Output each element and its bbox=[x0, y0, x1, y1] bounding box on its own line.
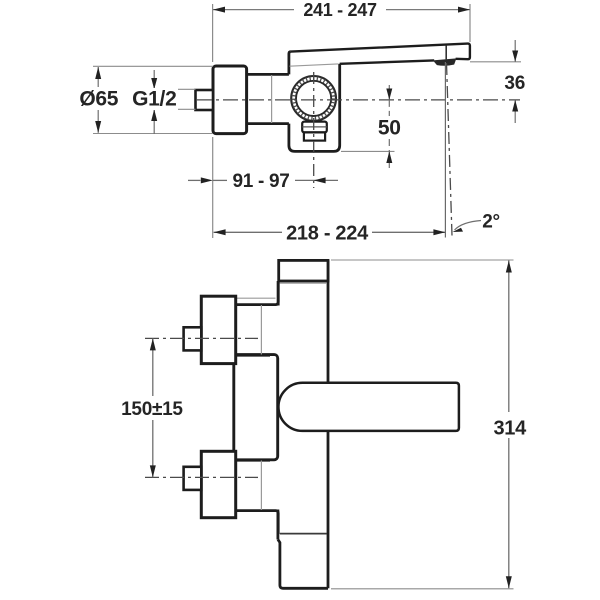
dimension Ø65 line and arrows bbox=[95, 67, 101, 133]
dimension 91-97 extension line bbox=[212, 137, 214, 238]
vertical centerline (cartridge axis) bbox=[313, 72, 315, 188]
dimension 150±15 line and arrows bbox=[150, 338, 156, 477]
cartridge inner circle bbox=[296, 81, 331, 116]
svg-text:Ø65: Ø65 bbox=[79, 88, 118, 111]
svg-text:218 - 224: 218 - 224 bbox=[286, 223, 369, 245]
column top cap bbox=[279, 260, 328, 283]
dimension 36 extension line bbox=[470, 61, 521, 63]
dimension 241-247 extension line left bbox=[212, 4, 214, 62]
dimension 50 extension line bbox=[341, 150, 395, 152]
svg-text:G1/2: G1/2 bbox=[132, 88, 176, 111]
tilted 2-degree axis line bbox=[447, 63, 453, 236]
upper union nut bbox=[201, 296, 235, 363]
2 degree leader arc bbox=[455, 221, 482, 231]
upper centerline bbox=[145, 337, 258, 339]
dimension 241-247 extension line right bbox=[469, 4, 471, 42]
lower centerline bbox=[145, 476, 258, 478]
screw detail lower rect bbox=[304, 132, 325, 140]
lower pipe stub bbox=[184, 467, 202, 490]
escutcheon flange bbox=[213, 66, 247, 134]
upper pipe stub bbox=[184, 327, 202, 350]
cartridge outer circle bbox=[291, 76, 336, 121]
lever joint line bbox=[445, 45, 447, 59]
dimension G1/2 line and arrows bbox=[151, 70, 157, 134]
horizontal centerline (main axis) bbox=[197, 99, 520, 101]
central body block bbox=[234, 355, 278, 460]
dimension 91-97 line and arrows bbox=[188, 177, 338, 183]
dimension G1/2 text bbox=[131, 88, 178, 111]
dimension G1/2 extension lines bbox=[149, 88, 196, 90]
svg-text:241 - 247: 241 - 247 bbox=[303, 0, 377, 20]
svg-text:2°: 2° bbox=[482, 212, 500, 233]
dimension 241-247 line bbox=[213, 7, 470, 13]
spout bar front view bbox=[278, 383, 458, 431]
dimension 314 extension line bottom bbox=[331, 588, 514, 590]
column main bar bbox=[278, 260, 328, 588]
neck connector between escutcheon and body bbox=[247, 74, 289, 123]
svg-text:36: 36 bbox=[504, 73, 525, 94]
dimension Ø65 extension lines bbox=[93, 65, 213, 67]
column bottom cap line bbox=[280, 533, 327, 535]
dimension 36 line and arrows bbox=[512, 40, 518, 123]
svg-text:150±15: 150±15 bbox=[121, 399, 183, 420]
aerator bump under spout tip bbox=[434, 59, 455, 65]
lower union nut bbox=[201, 451, 235, 517]
cartridge knurled ring bbox=[294, 78, 334, 118]
svg-text:314: 314 bbox=[493, 418, 527, 440]
svg-text:50: 50 bbox=[378, 117, 401, 140]
inlet stub G1/2 bbox=[196, 90, 214, 110]
spout hidden underside (thin) bbox=[290, 64, 339, 66]
dimension 218-224 line and arrows bbox=[214, 229, 446, 235]
screw detail upper rect bbox=[302, 122, 327, 133]
svg-text:91 - 97: 91 - 97 bbox=[232, 171, 289, 192]
upper connection neck bbox=[236, 281, 279, 355]
dimension 50 line and arrows bbox=[386, 85, 392, 168]
vertical reference line from spout tip bbox=[444, 62, 446, 238]
lower connection neck bbox=[236, 460, 279, 534]
lever / spout bbox=[291, 44, 470, 64]
dimension 314 line and arrows bbox=[506, 261, 512, 589]
mixer body bbox=[289, 52, 340, 152]
dimension 314 extension line top bbox=[331, 259, 514, 261]
